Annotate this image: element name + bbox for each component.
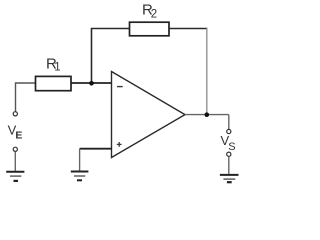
wire feedback right (R2 to corner) — [169, 28, 207, 30]
resistor R2 — [130, 22, 170, 36]
output node junction dot — [205, 112, 210, 117]
terminal VS bottom — [227, 152, 231, 156]
wire down to VS terminal — [228, 115, 230, 130]
terminal VS top — [227, 129, 231, 133]
resistor R1 — [36, 76, 72, 90]
ground (plus input) — [71, 172, 89, 181]
terminal VE bottom — [13, 147, 17, 151]
terminal VE top — [13, 112, 17, 116]
wire R1 to inverting input — [71, 82, 112, 84]
wire feedback left (node A up to R2) — [92, 29, 130, 84]
wire down to ground from plus input — [79, 149, 81, 171]
wire VE to R1 — [16, 83, 36, 112]
pin label plus — [117, 142, 122, 147]
ground (VS) — [220, 175, 239, 182]
wire non-inverting input — [80, 148, 112, 150]
svg-text:2: 2 — [151, 9, 157, 21]
wire output — [185, 114, 229, 116]
ground (VE) — [6, 172, 24, 181]
svg-text:S: S — [228, 141, 235, 153]
op-amp U1 — [112, 72, 186, 158]
node A junction dot — [89, 81, 94, 86]
svg-text:E: E — [15, 130, 22, 142]
wire VE bottom to ground — [14, 152, 16, 171]
wire VS bottom to ground — [228, 157, 230, 174]
svg-text:1: 1 — [54, 62, 60, 74]
pin label minus — [117, 86, 123, 88]
wire corner down to output node — [206, 28, 208, 115]
